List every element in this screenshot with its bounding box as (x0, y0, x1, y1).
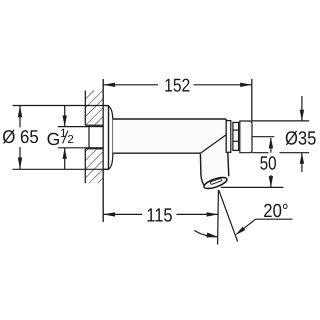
svg-text:50: 50 (260, 154, 277, 175)
body top line (113, 118, 226, 120)
knurled nut (233, 122, 239, 150)
dimension O65 (2, 106, 108, 170)
nut facet lines (233, 129, 239, 131)
mouth ellipse (203, 175, 228, 190)
end cap button (240, 121, 252, 153)
body end line (225, 119, 227, 152)
outlet extension line (221, 186, 283, 188)
dimension 20deg (235, 201, 292, 235)
dimension 115 (103, 205, 218, 226)
G 1/2 extension lines (58, 126, 89, 128)
nozzle left edge (200, 153, 205, 187)
flange plate (103, 106, 108, 170)
G 1/2 inlet nipple (89, 127, 103, 148)
spout vertical reference line (217, 190, 220, 245)
flange dome (109, 106, 113, 169)
dimension O35 (252, 96, 316, 172)
nozzle right edge (228, 152, 229, 176)
axis extension line (252, 136, 274, 138)
svg-text:Ø35: Ø35 (285, 128, 316, 149)
wall face line (102, 79, 104, 222)
angle arc (194, 231, 218, 237)
internal diagonal edge (200, 135, 226, 153)
svg-text:2: 2 (67, 134, 73, 146)
spout 20deg slant line (219, 190, 238, 241)
svg-text:152: 152 (164, 75, 190, 96)
step ring (226, 121, 231, 153)
svg-text:1: 1 (60, 126, 67, 140)
body tube fill (113, 119, 226, 153)
svg-text:Ø 65: Ø 65 (2, 126, 39, 147)
svg-text:G: G (47, 129, 61, 149)
aerator slot (210, 178, 222, 184)
dimension 50 (260, 137, 277, 187)
body bottom line (113, 152, 201, 154)
svg-text:115: 115 (146, 205, 172, 226)
dimension G 1/2 (47, 106, 74, 170)
spout nozzle (200, 152, 228, 185)
wall hatch upper (85, 91, 103, 126)
wall hatch lower (85, 149, 103, 183)
dimension 152 (103, 75, 252, 121)
